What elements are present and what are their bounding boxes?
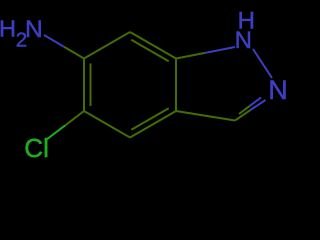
wire: bond C4-C5 xyxy=(84,111,130,138)
wire: bond C7=C7a main xyxy=(130,32,176,59)
wire: bond C3-C3a xyxy=(176,111,235,121)
wire: bond C6-C7 xyxy=(84,32,130,59)
svg-text:H: H xyxy=(0,16,16,42)
wire: bond C6-NH2 carbon half xyxy=(64,47,84,59)
wire: bond C5=C6 main xyxy=(83,59,85,112)
wire: bond C7a-C3a xyxy=(175,59,177,112)
wire: bond N2=C3 inner nitrogen half xyxy=(250,98,261,106)
wire: bond C7a-N1 carbon half xyxy=(176,53,206,59)
wire: bond C6-NH2 nitrogen half xyxy=(44,35,64,47)
svg-text:N: N xyxy=(235,27,252,54)
wire: bond C5-Cl carbon half xyxy=(65,111,84,125)
wire: bond C5=C6 inner xyxy=(90,64,92,107)
wire: bond C3a=C4 main xyxy=(130,111,176,138)
wire: bond N2=C3 inner carbon half xyxy=(239,106,250,114)
wire: bond N2=C3 main carbon half xyxy=(235,110,250,120)
svg-text:Cl: Cl xyxy=(24,133,49,163)
svg-text:N: N xyxy=(25,16,43,43)
wire: bond N1-N2 xyxy=(253,49,272,78)
wire: bond C5-Cl chlorine half xyxy=(47,125,66,139)
wire: bond C7a-N1 nitrogen half xyxy=(206,47,236,53)
wire: bond N2=C3 main nitrogen half xyxy=(250,100,265,110)
svg-text:N: N xyxy=(268,75,288,105)
wire: bond C3a=C4 inner xyxy=(131,108,168,130)
wire: bond C7=C7a inner xyxy=(131,40,168,62)
